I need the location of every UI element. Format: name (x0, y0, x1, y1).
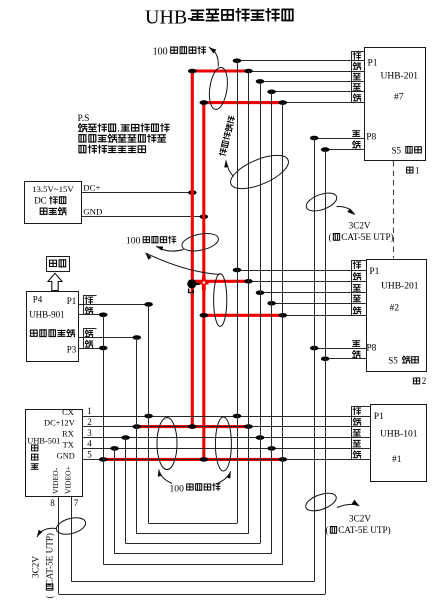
svg-text:P1: P1 (368, 59, 378, 69)
junction (279, 100, 288, 105)
wire GND regulator to rail2 (81, 216, 204, 218)
junction (99, 313, 108, 318)
bus vertical green (271, 92, 273, 554)
junction rail1 bottom (188, 424, 197, 429)
indoor unit U7 UHB-201 #7 box (365, 48, 426, 161)
svg-text:100: 100 (126, 236, 141, 247)
wire colour label column (351, 261, 353, 316)
annotation: 100-core parallel line (middle) (126, 236, 176, 247)
svg-text:UHB-901: UHB-901 (29, 310, 64, 320)
svg-text:CAT-5E UTP): CAT-5E UTP) (338, 525, 391, 535)
svg-text:RX: RX (62, 430, 74, 439)
video U-bottom pin7-blue (71, 581, 314, 583)
drop from UHB-901 black / pin5 (103, 315, 105, 564)
junction at bus (244, 424, 253, 429)
svg-text:2: 2 (87, 417, 92, 427)
svg-text:P8: P8 (366, 343, 376, 353)
svg-text:3C2V: 3C2V (31, 556, 41, 578)
video bus vertical blue (314, 138, 316, 582)
junction (99, 346, 108, 351)
svg-text:P8: P8 (366, 133, 376, 143)
svg-text:100: 100 (170, 483, 185, 494)
junction at left drop (133, 424, 142, 429)
note P.S text block (78, 114, 170, 153)
long arrow to junction (146, 253, 152, 260)
junction rail2/GND (200, 214, 209, 219)
wire DC+ regulator to rail1 (81, 192, 192, 194)
svg-text:UHB-201: UHB-201 (381, 72, 419, 82)
junction rail2 bottom (200, 457, 209, 462)
svg-text:8: 8 (50, 498, 55, 508)
svg-text:DC: DC (34, 196, 47, 206)
door station UHB-501 box (26, 408, 83, 496)
junction at left drop (121, 435, 130, 440)
svg-text:,: , (117, 123, 119, 133)
wire pin5 UHB-501 to UHB-101 black (82, 459, 370, 461)
svg-text:#7: #7 (394, 93, 404, 103)
wire pin3 UHB-501 to UHB-101 yellow (82, 437, 370, 439)
drop pin3 (125, 438, 127, 544)
annotation 3C2V lower right (303, 490, 338, 515)
video drop pin8 (58, 497, 60, 594)
junction at bus (233, 414, 242, 419)
indoor unit U2 UHB-201 #2 box (366, 260, 426, 372)
junction rail2 top (200, 100, 209, 105)
wire P8-blue box2 (314, 348, 366, 350)
DC regulator 13.5V~15V box (25, 182, 82, 224)
electric lock box (47, 257, 70, 272)
junction (267, 90, 276, 95)
cable U-bottom green (115, 553, 272, 555)
wire pin1 UHB-501 to UHB-101 white (82, 416, 370, 418)
junction (267, 301, 276, 306)
red segment pin2 DC+12V (137, 425, 249, 428)
wire P8-black box1 (325, 149, 364, 151)
svg-text:1: 1 (87, 406, 92, 416)
svg-text:CAT-5E UTP): CAT-5E UTP) (45, 533, 55, 586)
note1 label (407, 165, 420, 175)
junction (244, 279, 253, 284)
video drop pin7 (71, 497, 73, 582)
drop from UHB-901 red / pin2 (136, 338, 138, 534)
wire P8-black box2 (325, 358, 366, 360)
svg-text:3: 3 (87, 428, 92, 438)
red segment box2 black-wire (204, 314, 283, 317)
svg-text:DC+: DC+ (83, 183, 100, 193)
svg-text:VIDEO-: VIDEO- (51, 467, 60, 494)
P8 wire labels box2 (353, 341, 360, 347)
svg-text:(: ( (326, 525, 329, 535)
UHB-901 P1 wire labels cell (83, 295, 85, 314)
bus vertical white (237, 61, 239, 524)
dashed link box1-box2 (393, 161, 395, 258)
svg-text:(: ( (45, 595, 55, 598)
wire P1-black to box2 (283, 315, 367, 317)
junction at bus (256, 435, 265, 440)
drop from UHB-901 white / pin1 (148, 304, 150, 523)
lock controller UHB-901 box (27, 292, 79, 362)
red rail2 GND vertical (202, 103, 205, 460)
red segment pin5 GND (103, 458, 283, 461)
wire P1-white to box2 (237, 270, 366, 272)
svg-text:S5: S5 (388, 356, 398, 366)
svg-text:2: 2 (422, 376, 427, 386)
wire P1-green to box2 (272, 303, 367, 305)
wire colour label column (351, 51, 353, 103)
title UHB-intercom wiring diagram (145, 7, 293, 29)
cable U-bottom black (103, 564, 283, 566)
wire colour label column (351, 407, 353, 460)
svg-text:P3: P3 (67, 344, 77, 354)
red rail1 DC+ vertical (191, 71, 194, 427)
svg-text:VIDEO+: VIDEO+ (64, 466, 73, 494)
svg-text:UHB-: UHB- (145, 7, 194, 29)
junction (144, 302, 153, 307)
cable U-bottom red (137, 533, 249, 535)
UHB-901 P3 wire labels cell (83, 329, 85, 348)
junction (279, 313, 288, 318)
wire P1-black to box1 (283, 102, 364, 104)
block arrow UHB-901 to lock (48, 273, 62, 290)
junction at left drop (144, 414, 153, 419)
wire P1-white to box1 (237, 60, 364, 62)
wire pin2 UHB-501 to UHB-101 red (82, 426, 370, 428)
wire P1-red to box1 (249, 71, 365, 73)
annotation 3C2V upper (304, 189, 339, 214)
rotated note: isolation wire (219, 116, 235, 157)
wire UHB-901 P1 black (79, 314, 104, 316)
svg-text:(: ( (329, 232, 332, 242)
tall ellipse at junction bundle (214, 274, 227, 327)
note2 label (413, 376, 426, 386)
lobby unit U1 UHB-101 #1 box (371, 405, 427, 482)
annotation: 100-core parallel line (bottom) (170, 483, 220, 494)
red segment box1 red-wire (192, 69, 248, 72)
cable U-bottom white (149, 523, 237, 525)
wire P1-red to box2 (249, 281, 367, 283)
junction at left drop (99, 457, 108, 462)
red segment box2 red-wire (192, 280, 248, 283)
svg-text:3C2V: 3C2V (349, 220, 371, 230)
svg-text:CX: CX (62, 408, 74, 417)
big ellipse around bus bundle (226, 149, 293, 196)
svg-text:1: 1 (415, 165, 420, 175)
junction at bus (279, 457, 288, 462)
svg-text:5: 5 (87, 450, 92, 460)
bus vertical black (282, 103, 284, 565)
cable U-bottom yellow (126, 543, 260, 545)
junction rail1/DC+ (188, 190, 197, 195)
svg-text:UHB-101: UHB-101 (380, 429, 418, 439)
video bus vertical black (325, 150, 327, 594)
svg-text:13.5V~15V: 13.5V~15V (32, 184, 74, 194)
bus vertical yellow (260, 81, 262, 543)
svg-text:P4: P4 (33, 295, 43, 305)
svg-text:7: 7 (74, 498, 79, 508)
annotation: 100-core parallel line (top) (153, 47, 206, 58)
wire P1-yellow to box2 (260, 292, 366, 294)
junction (133, 335, 142, 340)
junction (244, 69, 253, 74)
ellipse around top power pair (207, 66, 230, 110)
svg-text:GND: GND (83, 207, 102, 217)
wire P1-green to box1 (272, 91, 365, 93)
drop pin4 (114, 448, 116, 553)
twist blob at rail1 junction (187, 279, 196, 288)
junction rail1 top (188, 69, 197, 74)
svg-text:100: 100 (153, 47, 168, 58)
junction at left drop (110, 446, 119, 451)
svg-text:TX: TX (63, 440, 74, 449)
junction at bus (267, 446, 276, 451)
junction (233, 268, 242, 273)
video U-bottom pin8-black (59, 594, 326, 596)
svg-text:UHB-501: UHB-501 (27, 437, 60, 446)
svg-text:GND: GND (57, 451, 75, 460)
wire UHB-901 P1 white (79, 304, 149, 306)
wire pin4 UHB-501 to UHB-101 green (82, 448, 370, 450)
ellipse around rails (180, 231, 220, 254)
two ellipses around wire bundles (157, 418, 177, 470)
wire UHB-901 P3 red (79, 337, 137, 339)
bus vertical red (248, 71, 250, 534)
junction (256, 79, 265, 84)
P8 wire labels box1 (353, 131, 360, 137)
svg-text:S5: S5 (392, 146, 402, 156)
svg-text:UHB-201: UHB-201 (381, 282, 419, 292)
wire P8-blue box1 (314, 138, 364, 140)
svg-text:CAT-5E UTP): CAT-5E UTP) (341, 232, 394, 242)
svg-text:DC+12V: DC+12V (44, 419, 75, 428)
svg-text:#2: #2 (390, 303, 400, 313)
svg-text:P1: P1 (374, 412, 384, 422)
junction rail2 box2 black (200, 313, 209, 318)
svg-text:P1: P1 (369, 267, 379, 277)
svg-text:#1: #1 (392, 455, 402, 465)
red segment box1 black-wire (204, 101, 283, 104)
junction (233, 59, 242, 64)
annotation 3C2V bottom-left rotated (55, 515, 88, 537)
junction (256, 290, 265, 295)
svg-text:3C2V: 3C2V (349, 514, 371, 524)
svg-text:P.S: P.S (78, 114, 90, 124)
wire UHB-901 P3 black (79, 348, 104, 350)
svg-text:P1: P1 (67, 296, 77, 306)
svg-text:4: 4 (87, 439, 92, 449)
wire P1-yellow to box1 (260, 81, 364, 83)
red crossover marker (199, 277, 209, 291)
